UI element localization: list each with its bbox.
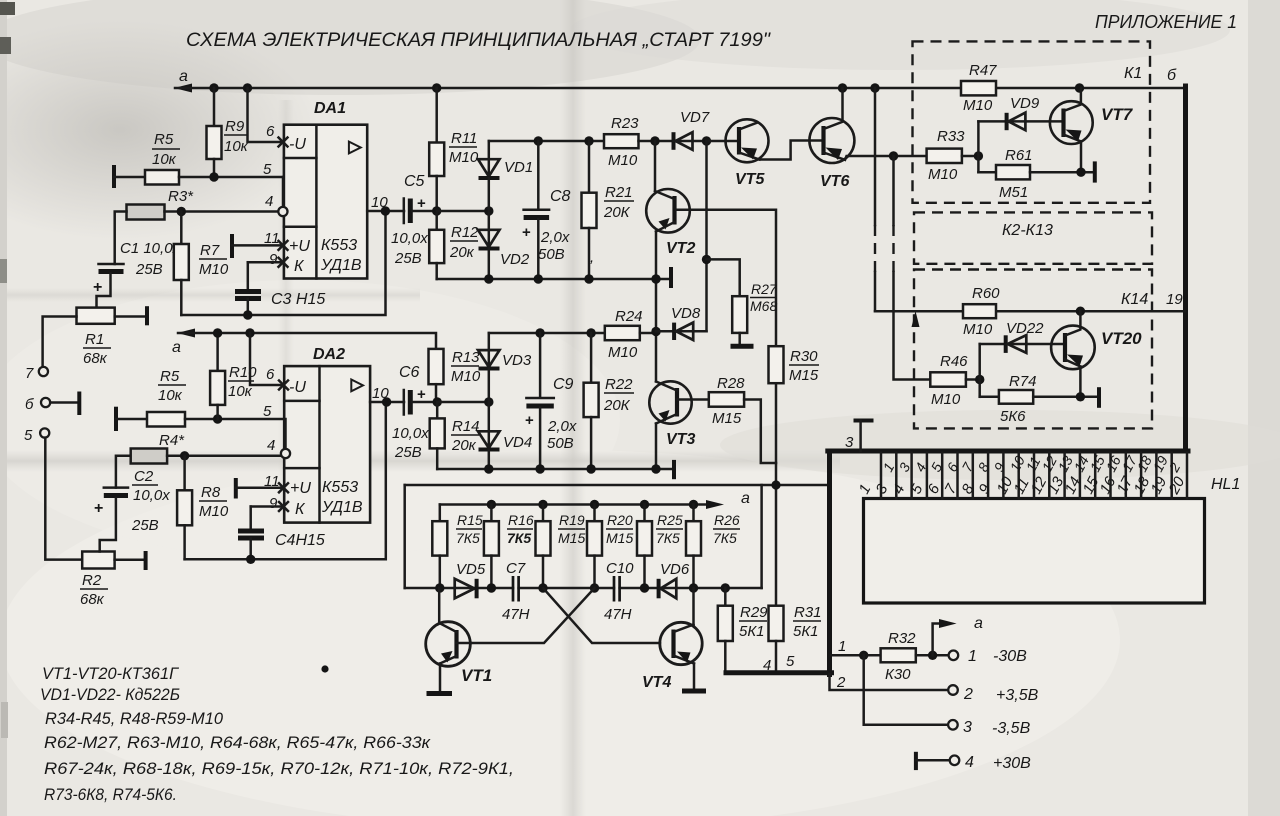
resistor R16 bbox=[484, 505, 534, 589]
resistor R61 bbox=[978, 147, 1094, 201]
svg-text:VD2: VD2 bbox=[500, 251, 530, 268]
junction VD3/VD4 bbox=[484, 397, 493, 406]
svg-text:М10: М10 bbox=[963, 321, 993, 338]
junction on bus at VT7 collector bbox=[1075, 83, 1084, 92]
svg-text:5К1: 5К1 bbox=[739, 623, 765, 640]
svg-text:50В: 50В bbox=[547, 435, 574, 452]
svg-text:К14: К14 bbox=[1121, 291, 1148, 308]
resistor R20 bbox=[587, 505, 633, 589]
svg-text:7К5: 7К5 bbox=[456, 530, 480, 546]
wire VD9 branch vertical bbox=[977, 121, 980, 172]
svg-text:С1 10,0х: С1 10,0х bbox=[120, 240, 181, 257]
wire multivibrator bottom rail bbox=[405, 587, 762, 590]
svg-text:2: 2 bbox=[963, 686, 973, 703]
junction on bus at R9 bbox=[209, 83, 218, 92]
svg-text:С9: С9 bbox=[553, 376, 574, 393]
wire bus-to-K14 vertical bbox=[874, 88, 877, 311]
junction rail3 R20 bbox=[590, 500, 599, 509]
wire second a bus bbox=[178, 333, 436, 349]
wire a2 segment VD3-R24 bbox=[489, 332, 605, 335]
capacitor C10 bbox=[604, 560, 634, 623]
resistor R13 bbox=[429, 349, 481, 402]
transistor VT2 bbox=[646, 189, 695, 257]
wire VT4 collector bbox=[692, 588, 695, 625]
svg-text:a: a bbox=[172, 339, 181, 356]
DA1 pin 9 bbox=[248, 251, 288, 268]
transistor VT6 bbox=[809, 88, 854, 190]
svg-text:УД1В: УД1В bbox=[320, 257, 362, 274]
junction R24/VD8/VT2 emitter bbox=[651, 327, 660, 336]
junction VT7 emitter/R61 bbox=[1076, 168, 1085, 177]
junction R10/R5 bbox=[213, 414, 222, 423]
resistor R11 bbox=[429, 88, 479, 211]
resistor R19 bbox=[536, 505, 586, 589]
svg-text:R23: R23 bbox=[611, 115, 639, 132]
thick frame top bbox=[828, 449, 1188, 454]
junction R13/R14/C6 bbox=[433, 397, 442, 406]
svg-text:М10: М10 bbox=[928, 166, 958, 183]
svg-text:-30В: -30В bbox=[993, 648, 1027, 665]
wire VT1 emitter bbox=[439, 664, 442, 693]
svg-text:R4*: R4* bbox=[159, 432, 185, 449]
resistor R3 bbox=[127, 188, 279, 220]
svg-text:R33: R33 bbox=[937, 128, 965, 145]
resistor R21 bbox=[582, 141, 635, 279]
svg-text:К: К bbox=[295, 501, 306, 518]
svg-text:5: 5 bbox=[263, 161, 272, 178]
svg-text:М10: М10 bbox=[608, 344, 638, 361]
diode VD9 bbox=[978, 95, 1063, 130]
svg-text:М15: М15 bbox=[606, 530, 633, 546]
svg-text:VT6: VT6 bbox=[820, 173, 849, 190]
svg-text:R10: R10 bbox=[229, 364, 257, 381]
svg-text:R30: R30 bbox=[790, 348, 818, 365]
relay cells K2-K13 dashed box bbox=[914, 212, 1152, 263]
svg-text:М10: М10 bbox=[963, 97, 993, 114]
wire main bus a bbox=[175, 87, 961, 90]
svg-text:20к: 20к bbox=[449, 244, 475, 261]
svg-text:R26: R26 bbox=[714, 512, 740, 528]
svg-text:VD1: VD1 bbox=[504, 159, 533, 176]
svg-text:10,0х: 10,0х bbox=[133, 487, 170, 504]
svg-text:10к: 10к bbox=[224, 138, 249, 155]
svg-text:М10: М10 bbox=[199, 261, 229, 278]
wire DA1 bottom rail bbox=[437, 278, 671, 281]
node 3 contact bbox=[845, 421, 874, 452]
junction R23/VT2 collector bbox=[650, 136, 659, 145]
svg-text:С4Н15: С4Н15 bbox=[275, 532, 325, 549]
wire VT6 emitter line bbox=[845, 156, 927, 160]
terminal 7 bbox=[25, 365, 48, 382]
junction C9 top bbox=[535, 328, 544, 337]
wire VT2 emitter chain bbox=[655, 232, 658, 382]
junction C4/feedback bbox=[246, 555, 255, 564]
resistor R1 bbox=[43, 306, 147, 367]
diode VD4 bbox=[478, 402, 532, 469]
svg-text:R61: R61 bbox=[1005, 147, 1033, 164]
junction VD1/VD2 bbox=[484, 206, 493, 215]
HL1 pin numbers top row bbox=[880, 452, 1184, 475]
svg-text:К30: К30 bbox=[885, 666, 911, 683]
resistor R7 bbox=[174, 212, 229, 316]
svg-text:10,0х: 10,0х bbox=[391, 230, 428, 247]
svg-text:9: 9 bbox=[269, 495, 278, 512]
junction R32/a branch bbox=[928, 651, 937, 660]
resistor R8 bbox=[177, 456, 229, 560]
svg-text:R24: R24 bbox=[615, 308, 643, 325]
svg-text:К: К bbox=[294, 258, 305, 275]
resistor R12 bbox=[429, 211, 479, 279]
svg-text:R15: R15 bbox=[457, 512, 483, 528]
svg-text:R60: R60 bbox=[972, 285, 1000, 302]
svg-text:R34-R45, R48-R59-М10: R34-R45, R48-R59-М10 bbox=[45, 709, 224, 728]
resistor R32 bbox=[881, 630, 949, 683]
svg-text:R21: R21 bbox=[605, 184, 633, 201]
legend line 5 bbox=[44, 759, 514, 778]
svg-text:R12: R12 bbox=[451, 224, 479, 241]
junction on bus at R11 bbox=[432, 83, 441, 92]
junction C3/feedback bbox=[243, 310, 252, 319]
junction rail4 R15/VT1 base bbox=[435, 583, 444, 592]
capacitor C1 bbox=[93, 212, 181, 308]
resistor R5 (lower) bbox=[116, 368, 284, 431]
junction rail2 VT3 emitter bbox=[651, 464, 660, 473]
junction DA2 out bbox=[382, 397, 391, 406]
svg-text:,: , bbox=[590, 249, 594, 266]
DA2 pin 4 bbox=[267, 419, 290, 458]
wire DA1 feedback bbox=[181, 211, 385, 315]
label б (top right) bbox=[1167, 67, 1177, 84]
terminal 4 bbox=[950, 754, 1031, 772]
capacitor C9 bbox=[525, 333, 577, 469]
resistor R10 bbox=[210, 333, 257, 419]
svg-text:HL1: HL1 bbox=[1211, 476, 1240, 493]
svg-text:4: 4 bbox=[965, 754, 974, 771]
svg-text:25В: 25В bbox=[131, 517, 159, 534]
junction on bus at K-line branch bbox=[870, 83, 879, 92]
svg-text:М10: М10 bbox=[199, 503, 229, 520]
junction R21 top bbox=[584, 136, 593, 145]
node a (second bus, arrow left) bbox=[172, 329, 195, 357]
svg-text:R5: R5 bbox=[160, 368, 180, 385]
junction R3/R7 node bbox=[177, 207, 186, 216]
DA1 pin 5 bbox=[263, 161, 272, 178]
svg-text:R32: R32 bbox=[888, 630, 916, 647]
svg-text:1: 1 bbox=[838, 638, 846, 655]
wire VT2 base to R30 bbox=[677, 210, 777, 347]
diode VD7 bbox=[674, 109, 710, 150]
svg-text:VT4: VT4 bbox=[642, 674, 671, 691]
wire output 4 bbox=[916, 752, 950, 770]
svg-text:+: + bbox=[94, 500, 103, 517]
svg-text:7К5: 7К5 bbox=[656, 530, 680, 546]
svg-text:7К5: 7К5 bbox=[507, 530, 531, 546]
svg-text:68к: 68к bbox=[83, 350, 108, 367]
svg-text:С5: С5 bbox=[404, 173, 425, 190]
junction VD7/VT5 base bbox=[702, 136, 711, 145]
capacitor C3 bbox=[235, 262, 325, 315]
junction rail4 R25 bbox=[640, 583, 649, 592]
wire VT20 emitter bbox=[1079, 367, 1082, 397]
wire K14 line R60 bbox=[875, 310, 963, 313]
thick bottom bar bbox=[726, 670, 832, 675]
svg-text:VT2: VT2 bbox=[666, 240, 695, 257]
thick frame right vertical б bbox=[1183, 86, 1188, 451]
junction C8 top bbox=[534, 136, 543, 145]
diode VD1 bbox=[478, 141, 533, 211]
svg-text:С8: С8 bbox=[550, 188, 571, 205]
junction R27 branch bbox=[702, 255, 711, 264]
svg-text:R74: R74 bbox=[1009, 373, 1037, 390]
wire DA1 out node bbox=[437, 210, 489, 213]
junction rail4 R29 bbox=[721, 583, 730, 592]
resistor R22 bbox=[584, 333, 634, 469]
capacitor C6 bbox=[392, 364, 437, 461]
resistor R9 bbox=[207, 88, 249, 177]
svg-text:R28: R28 bbox=[717, 375, 745, 392]
HL1 pin cells bbox=[881, 453, 1187, 499]
junction rail3 R26 bbox=[689, 500, 698, 509]
svg-text:20К: 20К bbox=[603, 397, 631, 414]
terminal 2 bbox=[948, 685, 1038, 704]
junction R4/R8 node bbox=[180, 451, 189, 460]
svg-text:4: 4 bbox=[267, 437, 275, 454]
junction rail VD2 bbox=[484, 274, 493, 283]
contact bar VT20 emitter bbox=[1097, 387, 1101, 408]
svg-text:М10: М10 bbox=[931, 391, 961, 408]
resistor R14 bbox=[430, 402, 480, 469]
DA2 pin 5 bbox=[263, 403, 272, 420]
resistor R25 bbox=[637, 505, 683, 589]
junction rail3 R16 bbox=[487, 500, 496, 509]
title text bbox=[186, 30, 771, 51]
svg-text:VD8: VD8 bbox=[671, 305, 701, 322]
svg-text:М15: М15 bbox=[558, 530, 585, 546]
label 1 (node) bbox=[838, 638, 846, 655]
svg-text:47Н: 47Н bbox=[604, 606, 632, 623]
junction rail4 R19 bbox=[538, 583, 547, 592]
node a (arrow right near R32) bbox=[933, 615, 983, 655]
svg-text:5: 5 bbox=[24, 427, 33, 444]
svg-text:VT1: VT1 bbox=[461, 666, 492, 685]
junction rail3 R25 bbox=[640, 500, 649, 509]
svg-text:a: a bbox=[179, 68, 188, 85]
stray ink mark comma bbox=[590, 249, 594, 266]
wire cross X left bbox=[543, 588, 660, 643]
svg-text:М68: М68 bbox=[750, 298, 777, 314]
op-amp DA1 bbox=[284, 100, 367, 279]
svg-text:R46: R46 bbox=[940, 353, 968, 370]
svg-text:R31: R31 bbox=[794, 604, 822, 621]
legend line 4 bbox=[44, 733, 431, 752]
transistor VT20 bbox=[1051, 311, 1142, 369]
svg-text:-U: -U bbox=[289, 136, 306, 153]
svg-text:2,0х: 2,0х bbox=[547, 418, 577, 435]
diode VD5 bbox=[455, 561, 486, 598]
svg-text:a: a bbox=[974, 615, 983, 632]
transistor VT7 bbox=[1050, 88, 1134, 144]
wire DA2 bottom rail bbox=[437, 468, 674, 471]
svg-text:К553: К553 bbox=[322, 479, 358, 496]
svg-text:7: 7 bbox=[25, 365, 34, 382]
svg-text:+3,5В: +3,5В bbox=[996, 687, 1039, 704]
svg-text:25В: 25В bbox=[394, 250, 422, 267]
svg-text:К1: К1 bbox=[1124, 65, 1142, 82]
svg-text:-U: -U bbox=[289, 379, 306, 396]
junction rail4 R20 bbox=[590, 583, 599, 592]
resistor R26 bbox=[686, 505, 740, 589]
junction output1/output3 bbox=[859, 651, 868, 660]
wire output 2 bbox=[830, 674, 949, 690]
diode VD8 bbox=[656, 305, 707, 340]
wire VT5 base bbox=[707, 140, 740, 143]
wire output 3 bbox=[864, 655, 948, 725]
transistor VT5 bbox=[726, 119, 769, 188]
svg-text:VT3: VT3 bbox=[666, 431, 695, 448]
svg-text:R1: R1 bbox=[85, 331, 104, 348]
svg-text:R19: R19 bbox=[559, 512, 585, 528]
svg-text:R62-М27, R63-М10, R64-68к, R65: R62-М27, R63-М10, R64-68к, R65-47к, R66-… bbox=[44, 733, 431, 752]
svg-text:VD3: VD3 bbox=[502, 352, 532, 369]
diode VD3 bbox=[478, 333, 532, 402]
svg-text:М10: М10 bbox=[449, 149, 479, 166]
contact bar at rail end bbox=[669, 267, 673, 288]
label 19 bbox=[1166, 291, 1183, 308]
resistor R4 bbox=[131, 432, 281, 464]
svg-text:2: 2 bbox=[836, 674, 846, 691]
resistor R47 bbox=[961, 62, 997, 114]
svg-text:+U: +U bbox=[289, 238, 310, 255]
svg-text:VD7: VD7 bbox=[680, 109, 710, 126]
svg-text:R13: R13 bbox=[452, 349, 480, 366]
junction R46/VD22/R74 bbox=[975, 375, 984, 384]
svg-text:VT20: VT20 bbox=[1101, 329, 1142, 348]
DA1 pin 10 bbox=[367, 194, 404, 211]
svg-text:+U: +U bbox=[290, 480, 311, 497]
wire VD22 branch vertical bbox=[978, 344, 981, 397]
svg-text:VT7: VT7 bbox=[1101, 105, 1134, 124]
resistor R5 (upper) bbox=[114, 131, 284, 188]
svg-text:М15: М15 bbox=[712, 410, 742, 427]
wire multivibrator top rail bbox=[440, 503, 710, 506]
svg-text:СХЕМА ЭЛЕКТРИЧЕСКАЯ ПРИНЦИПИ: СХЕМА ЭЛЕКТРИЧЕСКАЯ ПРИНЦИПИАЛЬНАЯ „СТАР… bbox=[186, 30, 771, 51]
svg-text:3: 3 bbox=[845, 434, 854, 451]
svg-text:VD5: VD5 bbox=[456, 561, 486, 578]
arrow on dashed edge bbox=[912, 311, 920, 327]
svg-text:VT1-VT20-КТ361Г: VT1-VT20-КТ361Г bbox=[42, 664, 180, 683]
svg-text:25В: 25В bbox=[394, 444, 422, 461]
junction rail2 R22 bbox=[586, 464, 595, 473]
wire VT1 base bbox=[438, 588, 441, 623]
svg-text:R9: R9 bbox=[225, 118, 245, 135]
op-amp DA2 bbox=[284, 346, 370, 523]
ground VT4 bbox=[682, 689, 706, 694]
svg-text:+: + bbox=[93, 279, 102, 296]
diode VD6 bbox=[659, 561, 690, 598]
resistor R15 bbox=[432, 505, 483, 589]
svg-text:R25: R25 bbox=[657, 512, 683, 528]
svg-text:25В: 25В bbox=[135, 261, 163, 278]
svg-text:М10: М10 bbox=[451, 368, 481, 385]
junction VT6 emitter branch bbox=[889, 151, 898, 160]
wire DA2 pin6 branch bbox=[250, 333, 284, 385]
svg-text:С2: С2 bbox=[134, 468, 154, 485]
svg-text:б: б bbox=[25, 396, 34, 413]
junction rail3 R19 bbox=[538, 500, 547, 509]
resistor R27 bbox=[707, 259, 778, 346]
wire VT7 emitter bbox=[1080, 142, 1083, 173]
svg-text:R8: R8 bbox=[201, 484, 221, 501]
svg-text:a: a bbox=[741, 490, 750, 507]
svg-text:6: 6 bbox=[266, 123, 275, 140]
svg-text:50В: 50В bbox=[538, 246, 565, 263]
svg-text:10к: 10к bbox=[152, 151, 177, 168]
DA2 pin 10 bbox=[370, 385, 404, 402]
svg-text:VD1-VD22- Кд522Б: VD1-VD22- Кд522Б bbox=[40, 685, 180, 704]
svg-text:С7: С7 bbox=[506, 560, 526, 577]
svg-text:20к: 20к bbox=[451, 437, 477, 454]
multivibrator box bbox=[405, 485, 762, 588]
legend line 1 bbox=[42, 664, 180, 683]
DA1 pin 11 bbox=[232, 230, 288, 258]
transistor VT1 bbox=[426, 622, 492, 685]
svg-text:VD6: VD6 bbox=[660, 561, 690, 578]
svg-text:DA1: DA1 bbox=[314, 100, 346, 117]
DA2 pin 6 bbox=[266, 366, 288, 390]
node a (arrow right, multivibrator) bbox=[706, 490, 750, 509]
resistor R2 bbox=[80, 551, 146, 608]
resistor R24 bbox=[605, 308, 656, 361]
junction R11/R12/C5 bbox=[432, 206, 441, 215]
svg-text:47Н: 47Н bbox=[502, 606, 530, 623]
junction rail2 C9 bbox=[535, 464, 544, 473]
contact bar VT7 emitter bbox=[1093, 161, 1097, 182]
svg-text:С10: С10 bbox=[606, 560, 634, 577]
wire node line to HL1 frame bbox=[405, 484, 828, 487]
DA2 pin 9 bbox=[251, 495, 288, 512]
junction VT20 collector bbox=[1076, 307, 1085, 316]
svg-text:R27: R27 bbox=[751, 281, 778, 297]
legend line 3 bbox=[45, 709, 224, 728]
junction R30/R31 bbox=[771, 480, 780, 489]
wire VT4 emitter bbox=[693, 664, 696, 691]
svg-text:+: + bbox=[417, 386, 426, 403]
wire DA2 out node bbox=[437, 401, 489, 404]
svg-text:3: 3 bbox=[963, 719, 972, 736]
HL1 pin numbers bottom row bbox=[856, 474, 1189, 498]
svg-text:VD4: VD4 bbox=[503, 434, 532, 451]
resistor R60 bbox=[963, 285, 1000, 338]
node a (top bus, arrow left) bbox=[174, 68, 192, 93]
svg-text:М15: М15 bbox=[789, 367, 819, 384]
wire DA2 feedback bbox=[185, 402, 386, 559]
junction rail VT2 emitter bbox=[651, 274, 660, 283]
svg-text:+: + bbox=[525, 412, 534, 429]
svg-text:К553: К553 bbox=[321, 237, 357, 254]
resistor R74 bbox=[980, 373, 1099, 425]
wire VT2 collector bbox=[654, 141, 657, 191]
svg-text:УД1В: УД1В bbox=[321, 499, 363, 516]
wire K14 line right bbox=[996, 310, 1185, 313]
capacitor C8 bbox=[522, 141, 571, 279]
ground R27 bbox=[731, 344, 754, 349]
capacitor C7 bbox=[502, 560, 530, 623]
svg-text:VD22: VD22 bbox=[1006, 320, 1044, 337]
svg-text:5: 5 bbox=[263, 403, 272, 420]
wire output 1 bbox=[831, 654, 881, 657]
svg-text:2,0х: 2,0х bbox=[540, 229, 570, 246]
junction on bus at DA1 pin6 branch bbox=[243, 83, 252, 92]
